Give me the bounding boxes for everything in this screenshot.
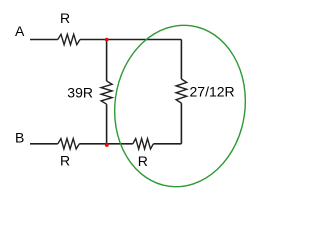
green selection ellipse <box>104 17 255 196</box>
wire top: resistor to right corner <box>80 39 181 41</box>
svg-text:A: A <box>15 23 25 39</box>
wire: 27/12R down to bottom right corner <box>180 103 182 144</box>
svg-text:27/12R: 27/12R <box>190 84 235 100</box>
svg-text:R: R <box>60 10 70 26</box>
wire: top junction down to 39R <box>106 40 108 82</box>
wire: bottom left resistor to junction <box>79 143 106 145</box>
wire: bottom junction to bottom right resistor <box>107 143 133 145</box>
wire right branch: corner down to 27/12R <box>180 40 182 80</box>
svg-text:R: R <box>60 153 70 169</box>
wire: bottom right resistor to corner <box>153 143 181 145</box>
wire: 39R down to bottom junction <box>106 104 108 144</box>
wire A lead <box>30 39 58 41</box>
svg-text:R: R <box>138 153 148 169</box>
wire B lead <box>30 143 58 145</box>
resistor R (bottom right) <box>133 139 154 149</box>
resistor R (top) <box>58 34 80 44</box>
svg-text:39R: 39R <box>67 84 93 100</box>
junction dot (top) <box>105 38 109 42</box>
resistor 27/12R <box>176 79 187 103</box>
junction dot (bottom) <box>105 143 109 147</box>
svg-text:B: B <box>15 129 24 145</box>
resistor 39R <box>101 81 112 104</box>
resistor R (bottom left) <box>58 139 80 149</box>
